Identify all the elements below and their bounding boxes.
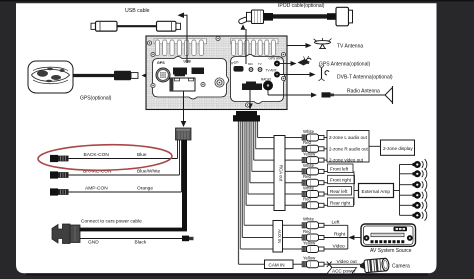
svg-text:Right: Right — [334, 232, 346, 238]
svg-text:GND: GND — [88, 240, 99, 246]
svg-text:TV Antenna: TV Antenna — [337, 44, 363, 50]
svg-text:Front left: Front left — [330, 166, 349, 171]
svg-text:Yellow: Yellow — [303, 240, 316, 245]
svg-text:Yellow: Yellow — [303, 256, 316, 261]
svg-text:Red: Red — [303, 140, 311, 145]
svg-text:CAM IN: CAM IN — [269, 262, 285, 267]
svg-text:White: White — [303, 185, 315, 190]
svg-text:White: White — [303, 163, 315, 168]
svg-text:GPS Antenna(optional): GPS Antenna(optional) — [319, 62, 370, 68]
svg-text:MIC: MIC — [248, 62, 253, 66]
svg-text:Red: Red — [303, 229, 311, 234]
svg-text:Front right: Front right — [330, 178, 352, 183]
svg-text:2-zone L audio out: 2-zone L audio out — [329, 135, 368, 140]
svg-text:BACK-CON: BACK-CON — [84, 152, 110, 158]
svg-text:GPS ANT: GPS ANT — [269, 57, 283, 61]
svg-text:Yellow: Yellow — [303, 152, 316, 157]
svg-text:Radio Antenna: Radio Antenna — [347, 89, 380, 95]
svg-text:Red: Red — [303, 174, 311, 179]
svg-text:AUX IN: AUX IN — [277, 229, 282, 243]
svg-text:AV System Source: AV System Source — [370, 248, 412, 254]
svg-text:GPS(optional): GPS(optional) — [80, 96, 112, 102]
svg-text:DVB-T Antenna(optional): DVB-T Antenna(optional) — [337, 75, 393, 81]
svg-text:Rear right: Rear right — [330, 200, 351, 205]
svg-text:Blue: Blue — [137, 152, 147, 158]
svg-text:Red: Red — [303, 197, 311, 202]
svg-text:Blue/White: Blue/White — [137, 169, 161, 175]
svg-text:RCA out: RCA out — [279, 165, 284, 182]
svg-text:External Amp: External Amp — [362, 189, 391, 195]
svg-text:USB cable: USB cable — [125, 8, 150, 14]
svg-text:IPOD cable(optional): IPOD cable(optional) — [278, 3, 325, 9]
svg-text:AMP-CON: AMP-CON — [85, 186, 108, 192]
svg-text:Connect to cars power cable: Connect to cars power cable — [81, 219, 142, 225]
svg-text:GPS: GPS — [157, 61, 165, 65]
svg-text:2-zone R audio out: 2-zone R audio out — [329, 147, 369, 152]
svg-text:2-zone display: 2-zone display — [383, 146, 413, 151]
svg-text:TV: TV — [258, 62, 262, 66]
svg-text:White: White — [303, 217, 315, 222]
svg-text:Left: Left — [332, 220, 341, 226]
svg-text:Video: Video — [333, 243, 346, 249]
svg-text:2-zone video out: 2-zone video out — [329, 157, 364, 162]
svg-text:Video out: Video out — [337, 259, 358, 265]
svg-text:ACC power: ACC power — [332, 269, 356, 274]
svg-text:Orange: Orange — [137, 186, 153, 192]
svg-text:Rear left: Rear left — [330, 189, 348, 194]
svg-text:Camera: Camera — [392, 264, 410, 270]
svg-text:White: White — [303, 129, 315, 134]
svg-text:TV ANT: TV ANT — [266, 69, 277, 73]
svg-text:Black: Black — [135, 240, 147, 246]
